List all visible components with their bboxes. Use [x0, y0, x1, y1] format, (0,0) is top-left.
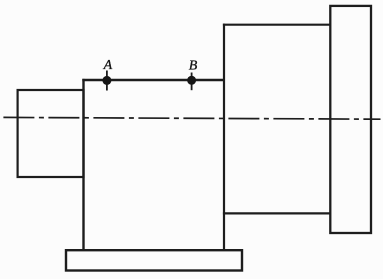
point A marker dot	[102, 76, 111, 85]
shared vertical edge (body right / right block left)	[223, 24, 225, 250]
point B marker tick	[191, 73, 193, 91]
left shaft stub	[18, 90, 84, 177]
base plate	[66, 250, 242, 270]
machine body left edge	[82, 79, 84, 250]
svg-text:B: B	[189, 58, 198, 73]
centerline (shaft axis, dash-dot)	[3, 117, 380, 119]
point B marker dot	[187, 76, 196, 85]
right block top edge	[223, 24, 330, 26]
point A marker tick	[106, 71, 108, 91]
far right end flange	[330, 6, 371, 233]
machine body top edge	[82, 79, 224, 81]
right block bottom edge	[223, 212, 330, 214]
svg-text:A: A	[103, 58, 113, 73]
